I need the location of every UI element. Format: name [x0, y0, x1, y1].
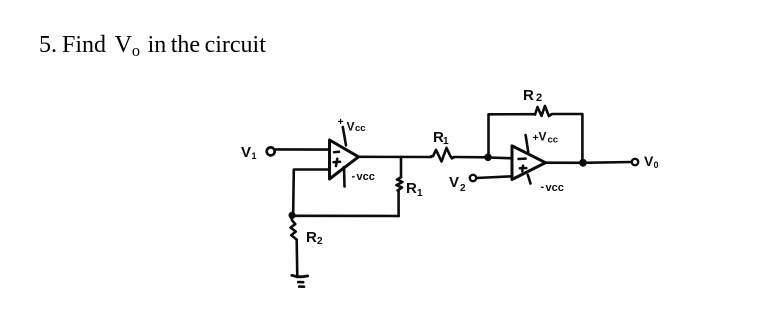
svg-text:2: 2 [536, 92, 542, 104]
svg-text:1: 1 [252, 151, 257, 161]
svg-text:R: R [306, 229, 317, 246]
svg-text:V: V [241, 144, 251, 161]
svg-text:cc: cc [355, 123, 366, 134]
svg-text:0: 0 [654, 160, 659, 170]
svg-text:R: R [406, 180, 417, 197]
svg-text:vcc: vcc [546, 182, 564, 194]
svg-text:V: V [347, 120, 355, 134]
svg-text:cc: cc [548, 135, 559, 146]
svg-text:2: 2 [460, 183, 466, 194]
svg-text:R: R [523, 87, 534, 104]
svg-text:vcc: vcc [357, 171, 375, 183]
svg-text:V: V [539, 130, 547, 144]
svg-text:+: + [338, 116, 344, 128]
svg-text:2: 2 [317, 236, 323, 247]
svg-text:1: 1 [417, 188, 423, 199]
svg-text:-: - [541, 181, 545, 193]
svg-text:V: V [644, 153, 654, 169]
svg-text:-: - [352, 171, 356, 183]
svg-text:V: V [449, 174, 459, 191]
svg-text:1: 1 [443, 136, 449, 147]
